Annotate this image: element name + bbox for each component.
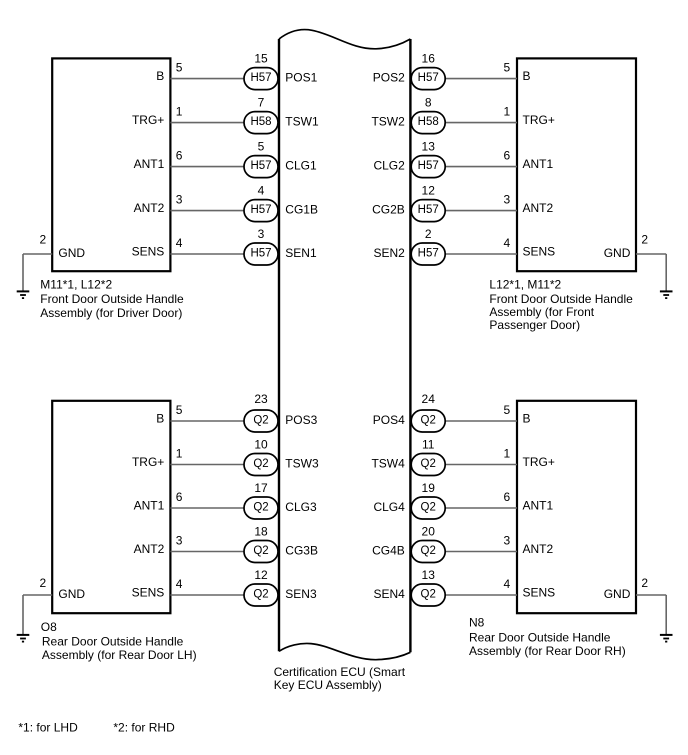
svg-text:23: 23 <box>254 392 268 406</box>
connector H57 (pin 4) left <box>244 200 278 222</box>
svg-text:2: 2 <box>641 232 648 246</box>
svg-text:Front Door Outside Handle: Front Door Outside Handle <box>489 292 633 306</box>
connector Q2 (pin 18) left <box>244 541 278 563</box>
svg-text:2: 2 <box>40 232 47 246</box>
svg-text:1: 1 <box>176 447 183 461</box>
svg-text:1: 1 <box>504 105 511 119</box>
svg-text:Q2: Q2 <box>253 545 268 557</box>
svg-text:Rear Door Outside Handle: Rear Door Outside Handle <box>42 634 184 648</box>
svg-text:4: 4 <box>258 184 265 198</box>
ground left symbol <box>17 635 30 642</box>
connector Q2 (pin 19) right <box>411 497 445 519</box>
svg-text:CLG1: CLG1 <box>285 158 317 172</box>
svg-text:H57: H57 <box>250 160 271 172</box>
svg-text:3: 3 <box>504 193 511 207</box>
svg-text:H57: H57 <box>418 248 439 260</box>
svg-text:Assembly (for Rear Door RH): Assembly (for Rear Door RH) <box>469 644 626 658</box>
svg-text:B: B <box>156 69 164 83</box>
svg-text:16: 16 <box>422 52 436 66</box>
svg-text:3: 3 <box>258 227 265 241</box>
connector H58 (pin 7) left <box>244 112 278 134</box>
svg-text:15: 15 <box>254 52 268 66</box>
svg-text:12: 12 <box>422 184 436 198</box>
wire TSW4 connector to right-box <box>444 464 517 466</box>
svg-text:4: 4 <box>504 236 511 250</box>
svg-text:Assembly (for Driver Door): Assembly (for Driver Door) <box>40 306 182 320</box>
svg-text:SENS: SENS <box>132 585 165 599</box>
svg-text:18: 18 <box>254 525 268 539</box>
wire CLG4 connector to right-box <box>444 507 517 509</box>
wire POS1 left-box to connector <box>170 78 245 80</box>
svg-text:4: 4 <box>176 236 183 250</box>
svg-text:2: 2 <box>425 227 432 241</box>
wire SEN2 connector to right-box <box>444 253 517 255</box>
wire SEN3 left-box to connector <box>170 594 245 596</box>
svg-text:SENS: SENS <box>523 585 556 599</box>
ground left wire <box>22 595 24 635</box>
svg-text:POS4: POS4 <box>373 413 405 427</box>
svg-text:Q2: Q2 <box>421 545 436 557</box>
svg-text:1: 1 <box>176 105 183 119</box>
svg-text:4: 4 <box>504 577 511 591</box>
svg-text:5: 5 <box>258 140 265 154</box>
svg-text:SEN1: SEN1 <box>285 246 317 260</box>
svg-text:5: 5 <box>504 61 511 75</box>
svg-text:CG3B: CG3B <box>285 543 318 557</box>
ECU band torn top edge <box>279 30 410 49</box>
svg-text:24: 24 <box>422 392 436 406</box>
svg-text:Q2: Q2 <box>253 589 268 601</box>
svg-text:10: 10 <box>254 438 268 452</box>
wire CG4B connector to right-box <box>444 551 517 553</box>
svg-text:6: 6 <box>176 149 183 163</box>
svg-text:Key ECU Assembly): Key ECU Assembly) <box>274 678 382 692</box>
svg-text:13: 13 <box>422 140 436 154</box>
svg-text:7: 7 <box>258 96 265 110</box>
svg-text:POS1: POS1 <box>285 70 317 84</box>
ECU band: Certification ECU (Smart Key ECU Assembly) left edge <box>278 39 280 651</box>
svg-text:CLG2: CLG2 <box>373 158 405 172</box>
svg-text:GND: GND <box>604 246 631 260</box>
svg-text:TSW3: TSW3 <box>285 456 319 470</box>
svg-text:SEN2: SEN2 <box>373 246 405 260</box>
connector Q2 (pin 12) left <box>244 584 278 606</box>
svg-text:H57: H57 <box>250 248 271 260</box>
component box U1: Front Door Outside Handle Assembly (for Driver Door) M11/L12 <box>52 58 170 271</box>
svg-text:3: 3 <box>176 193 183 207</box>
connector H57 (pin 3) left <box>244 243 278 265</box>
wire TSW1 left-box to connector <box>170 122 245 124</box>
svg-text:11: 11 <box>422 438 435 452</box>
svg-text:GND: GND <box>604 587 631 601</box>
wire GND left box <box>23 253 52 255</box>
svg-text:TRG+: TRG+ <box>132 113 164 127</box>
wire SEN4 connector to right-box <box>444 594 517 596</box>
connector H57 (pin 5) left <box>244 156 278 178</box>
svg-text:2: 2 <box>641 576 648 590</box>
svg-text:*2: for RHD: *2: for RHD <box>113 720 175 734</box>
connector H57 (pin 16) right <box>411 68 445 90</box>
svg-text:Front Door Outside Handle: Front Door Outside Handle <box>40 292 184 306</box>
svg-text:N8: N8 <box>469 616 485 630</box>
svg-text:B: B <box>523 69 531 83</box>
svg-text:20: 20 <box>422 525 436 539</box>
svg-text:3: 3 <box>504 534 511 548</box>
svg-text:TSW4: TSW4 <box>371 456 405 470</box>
svg-text:5: 5 <box>504 403 511 417</box>
wire TSW3 left-box to connector <box>170 464 245 466</box>
svg-text:5: 5 <box>176 61 183 75</box>
svg-text:17: 17 <box>254 481 268 495</box>
wire POS3 left-box to connector <box>170 420 245 422</box>
svg-text:8: 8 <box>425 96 432 110</box>
svg-text:5: 5 <box>176 403 183 417</box>
svg-text:6: 6 <box>176 490 183 504</box>
svg-text:SEN3: SEN3 <box>285 587 317 601</box>
connector Q2 (pin 23) left <box>244 410 278 432</box>
svg-text:1: 1 <box>504 447 511 461</box>
svg-text:H57: H57 <box>418 72 439 84</box>
svg-text:ANT2: ANT2 <box>134 201 165 215</box>
svg-text:TSW2: TSW2 <box>371 114 405 128</box>
svg-text:M11*1, L12*2: M11*1, L12*2 <box>40 278 112 292</box>
svg-text:13: 13 <box>422 568 436 582</box>
connector H57 (pin 15) left <box>244 68 278 90</box>
component box U4: Rear Door Outside Handle Assembly (for Rear Door RH) N8 <box>517 401 636 613</box>
component box U2: Front Door Outside Handle Assembly (for Front Passenger Door) L12/M11 <box>517 58 636 271</box>
svg-text:ANT1: ANT1 <box>523 157 554 171</box>
svg-text:12: 12 <box>254 568 268 582</box>
svg-text:SEN4: SEN4 <box>373 587 405 601</box>
ground right symbol <box>660 635 673 642</box>
svg-text:Q2: Q2 <box>253 415 268 427</box>
svg-text:CG1B: CG1B <box>285 202 318 216</box>
svg-text:CG2B: CG2B <box>372 202 405 216</box>
connector H57 (pin 13) right <box>411 156 445 178</box>
svg-text:CLG3: CLG3 <box>285 500 317 514</box>
svg-text:3: 3 <box>176 534 183 548</box>
svg-text:GND: GND <box>58 246 85 260</box>
connector H57 (pin 2) right <box>411 243 445 265</box>
connector Q2 (pin 20) right <box>411 541 445 563</box>
svg-text:B: B <box>156 411 164 425</box>
svg-text:TRG+: TRG+ <box>523 113 555 127</box>
ECU band right edge <box>409 39 411 652</box>
ECU band torn bottom edge <box>279 643 410 659</box>
svg-text:ANT1: ANT1 <box>134 157 165 171</box>
svg-text:H58: H58 <box>418 116 439 128</box>
svg-text:Q2: Q2 <box>421 502 436 514</box>
component box U3: Rear Door Outside Handle Assembly (for Rear Door LH) O8 <box>52 401 170 613</box>
svg-text:TRG+: TRG+ <box>132 455 164 469</box>
svg-text:Rear Door Outside Handle: Rear Door Outside Handle <box>469 630 611 644</box>
svg-text:SENS: SENS <box>132 244 165 258</box>
svg-text:H57: H57 <box>250 72 271 84</box>
connector Q2 (pin 13) right <box>411 584 445 606</box>
svg-text:SENS: SENS <box>523 244 556 258</box>
wire CG1B left-box to connector <box>170 210 245 212</box>
wire GND right box <box>636 594 666 596</box>
svg-text:2: 2 <box>40 576 47 590</box>
svg-text:Q2: Q2 <box>421 458 436 470</box>
ground left symbol <box>17 291 30 298</box>
svg-text:Assembly (for Rear Door LH): Assembly (for Rear Door LH) <box>42 648 197 662</box>
svg-text:4: 4 <box>176 577 183 591</box>
svg-text:H57: H57 <box>418 204 439 216</box>
svg-text:6: 6 <box>504 149 511 163</box>
wire TSW2 connector to right-box <box>444 122 517 124</box>
svg-text:19: 19 <box>422 481 436 495</box>
svg-text:GND: GND <box>58 587 85 601</box>
wire CG3B left-box to connector <box>170 551 245 553</box>
svg-text:CLG4: CLG4 <box>373 500 405 514</box>
connector Q2 (pin 11) right <box>411 454 445 476</box>
svg-text:ANT2: ANT2 <box>523 542 554 556</box>
ground right wire <box>665 595 667 635</box>
svg-text:ANT2: ANT2 <box>134 542 165 556</box>
wire CLG2 connector to right-box <box>444 166 517 168</box>
svg-text:Q2: Q2 <box>421 589 436 601</box>
svg-text:H57: H57 <box>418 160 439 172</box>
svg-text:B: B <box>523 411 531 425</box>
svg-text:H58: H58 <box>250 116 271 128</box>
svg-text:Passenger Door): Passenger Door) <box>489 318 580 332</box>
svg-text:TSW1: TSW1 <box>285 114 319 128</box>
ground right wire <box>665 254 667 291</box>
connector H58 (pin 8) right <box>411 112 445 134</box>
connector Q2 (pin 17) left <box>244 497 278 519</box>
svg-text:Assembly (for Front: Assembly (for Front <box>489 305 594 319</box>
wire CLG3 left-box to connector <box>170 507 245 509</box>
svg-text:Q2: Q2 <box>253 502 268 514</box>
svg-text:ANT1: ANT1 <box>523 498 554 512</box>
wire POS4 connector to right-box <box>444 420 517 422</box>
svg-text:Certification ECU (Smart: Certification ECU (Smart <box>274 665 406 679</box>
svg-text:Q2: Q2 <box>253 458 268 470</box>
wire CG2B connector to right-box <box>444 210 517 212</box>
svg-text:6: 6 <box>504 490 511 504</box>
connector Q2 (pin 10) left <box>244 454 278 476</box>
wire GND left box <box>23 594 52 596</box>
wire GND right box <box>636 253 666 255</box>
ground right symbol <box>660 291 673 298</box>
ground left wire <box>22 254 24 291</box>
svg-text:H57: H57 <box>250 204 271 216</box>
wire POS2 connector to right-box <box>444 78 517 80</box>
svg-text:L12*1, M11*2: L12*1, M11*2 <box>489 277 561 291</box>
wire CLG1 left-box to connector <box>170 166 245 168</box>
svg-text:ANT2: ANT2 <box>523 201 554 215</box>
wire SEN1 left-box to connector <box>170 253 245 255</box>
svg-text:CG4B: CG4B <box>372 543 405 557</box>
svg-text:POS3: POS3 <box>285 413 317 427</box>
svg-text:TRG+: TRG+ <box>523 455 555 469</box>
svg-text:ANT1: ANT1 <box>134 498 165 512</box>
svg-text:O8: O8 <box>41 620 57 634</box>
svg-text:POS2: POS2 <box>373 70 405 84</box>
connector H57 (pin 12) right <box>411 200 445 222</box>
svg-text:Q2: Q2 <box>421 415 436 427</box>
connector Q2 (pin 24) right <box>411 410 445 432</box>
svg-text:*1: for LHD: *1: for LHD <box>18 720 78 734</box>
